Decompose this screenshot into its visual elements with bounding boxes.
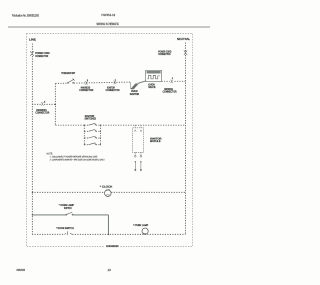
oven valve coil bbox=[147, 75, 159, 79]
svg-text:1. DISCONNECT POWER BEFORE SER: 1. DISCONNECT POWER BEFORE SERVICING UNI… bbox=[50, 155, 98, 158]
connector harness (row1 right) bbox=[170, 80, 173, 83]
svg-text:MODULE: MODULE bbox=[150, 140, 161, 143]
connector power cord (left) bbox=[30, 51, 33, 56]
svg-text:* CLOCK: * CLOCK bbox=[100, 186, 113, 189]
svg-text:CONNECTOR: CONNECTOR bbox=[35, 112, 49, 115]
connector harness (left bus) bbox=[41, 102, 44, 105]
svg-text:2. COMPONENTS MARKED * ARE USE: 2. COMPONENTS MARKED * ARE USED ON SOME … bbox=[50, 159, 105, 162]
oven lamp switch bbox=[66, 212, 73, 215]
wire riser bbox=[54, 83, 56, 125]
svg-text:WIRING SCHEMATIC: WIRING SCHEMATIC bbox=[97, 22, 120, 26]
svg-text:VALVE: VALVE bbox=[148, 86, 155, 89]
ignitor switch bank rails bbox=[83, 125, 85, 145]
connector ignitor (row1) bbox=[113, 81, 116, 84]
oven lamp bbox=[142, 228, 148, 234]
svg-text:316048299: 316048299 bbox=[106, 245, 119, 248]
wire row1 segment g bbox=[175, 80, 186, 82]
ignitor switch 2 bbox=[84, 129, 101, 132]
wire NEUTRAL bus bbox=[185, 43, 187, 235]
svg-text:CONNECTOR: CONNECTOR bbox=[163, 90, 177, 93]
svg-text:NOTE:: NOTE: bbox=[47, 153, 54, 156]
door switch (plunger) bbox=[64, 231, 72, 235]
module terminals bbox=[134, 130, 141, 132]
svg-text:THERMOSTAT: THERMOSTAT bbox=[61, 72, 75, 75]
spark module stubs bbox=[134, 125, 136, 128]
connector harness (row1) bbox=[85, 81, 88, 84]
ignitor switch 3 bbox=[84, 136, 101, 138]
header rule bbox=[8, 26, 210, 28]
oven ignitor element bbox=[130, 82, 138, 89]
svg-text:CONNECTOR: CONNECTOR bbox=[79, 89, 93, 92]
wire row1 segment f bbox=[162, 80, 170, 82]
thermostat switch bbox=[67, 79, 74, 84]
module output stubs bbox=[134, 152, 136, 155]
svg-text:CONNECTOR: CONNECTOR bbox=[106, 89, 120, 92]
svg-text:IGNITOR: IGNITOR bbox=[130, 93, 140, 96]
spark electrodes bbox=[135, 161, 142, 170]
svg-text:* DOOR SWITCH: * DOOR SWITCH bbox=[56, 227, 74, 230]
connector power cord (right) bbox=[184, 50, 187, 55]
wire lamp switch drop bbox=[107, 215, 109, 235]
svg-text:FGF352-C2: FGF352-C2 bbox=[102, 13, 116, 17]
ignitor switch 4 bbox=[84, 143, 101, 145]
svg-text:CONNECTOR: CONNECTOR bbox=[35, 55, 48, 58]
svg-text:NEUTRAL: NEUTRAL bbox=[177, 37, 190, 41]
svg-text:LINE: LINE bbox=[29, 38, 36, 42]
wire door switch row bbox=[32, 233, 64, 235]
wire row1 segment e bbox=[138, 81, 146, 84]
wire door switch to lamp bbox=[72, 233, 185, 235]
chassis frame (dashed border) bbox=[27, 33, 193, 246]
ignitor switch 1 bbox=[84, 123, 101, 125]
svg-text:08/08: 08/08 bbox=[17, 268, 26, 272]
svg-text:13: 13 bbox=[108, 268, 112, 272]
wire clock row bbox=[32, 191, 104, 193]
clock motor bbox=[105, 190, 112, 197]
oven valve header band bbox=[147, 71, 161, 74]
wire left tap to harness connector bbox=[32, 103, 41, 105]
part number on frame bottom bbox=[105, 244, 121, 248]
svg-text:Publication No. 5995532350: Publication No. 5995532350 bbox=[12, 14, 39, 18]
svg-text:SWITCH: SWITCH bbox=[64, 207, 72, 210]
wire row1 segment a bbox=[55, 82, 67, 84]
wire row1 thermostat to ignitor (through connectors) bbox=[74, 82, 131, 83]
svg-text:CONNECTOR: CONNECTOR bbox=[158, 53, 170, 56]
wire LINE bus bbox=[31, 44, 33, 235]
wire row2 (ignitor switch row) bbox=[55, 124, 84, 126]
wire oven lamp switch row bbox=[32, 214, 66, 216]
oven valve box bbox=[146, 70, 162, 81]
spark module box bbox=[133, 128, 144, 153]
svg-text:SWITCHES: SWITCHES bbox=[85, 118, 97, 121]
svg-text:* OVEN LAMP: * OVEN LAMP bbox=[133, 224, 148, 227]
